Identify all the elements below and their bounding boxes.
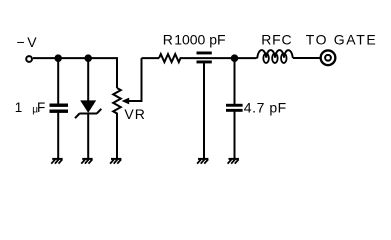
svg-text:1: 1 [15,100,23,115]
svg-text:1000 pF: 1000 pF [174,31,225,47]
svg-text:R: R [163,31,173,47]
svg-text:TO GATE: TO GATE [306,31,378,47]
svg-text:4.7 pF: 4.7 pF [244,99,287,115]
svg-text:RFC: RFC [261,31,292,47]
svg-text:VR: VR [124,106,145,122]
svg-text:F: F [37,100,45,115]
svg-text:−V: −V [17,34,40,50]
